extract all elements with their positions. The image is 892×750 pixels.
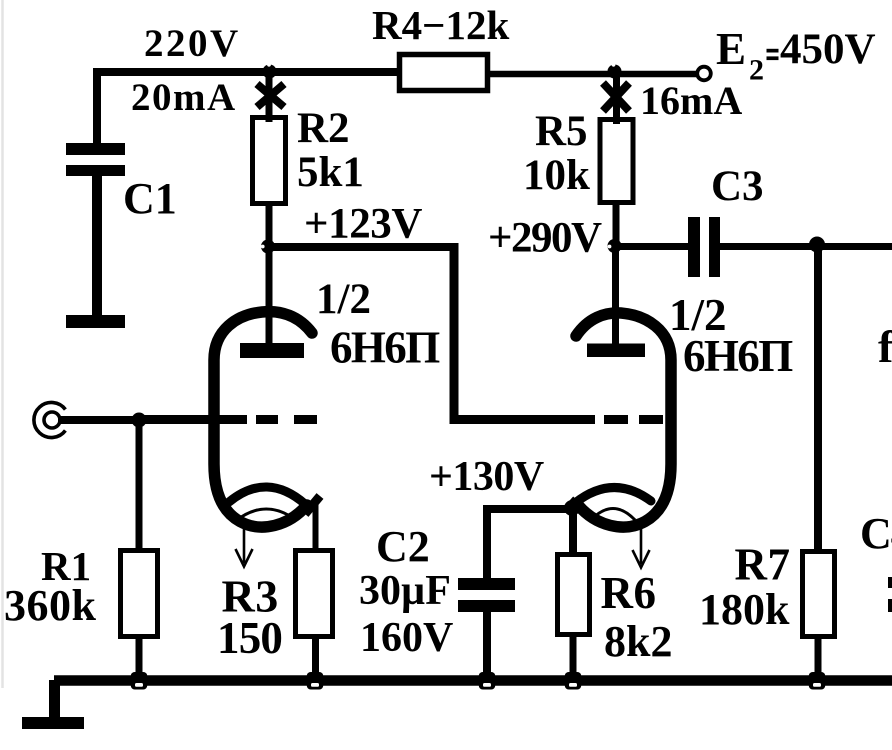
resistor R1 — [121, 551, 158, 637]
wire C2 top lead — [483, 505, 491, 580]
wire R7 top lead — [814, 247, 822, 553]
capacitor C4 stubs — [888, 577, 892, 588]
svg-text:R5: R5 — [535, 108, 588, 155]
svg-text:30µF: 30µF — [359, 568, 451, 614]
svg-text:5k1: 5k1 — [297, 149, 364, 196]
svg-text:6Н6П: 6Н6П — [683, 331, 793, 381]
node junction at R5 top — [608, 65, 622, 79]
tube U2 cathode lead diagonal — [568, 500, 577, 510]
X mark at R2 — [257, 84, 284, 107]
resistor R2 — [253, 118, 286, 204]
capacitor C1 — [66, 143, 125, 155]
svg-text:R6: R6 — [601, 568, 657, 618]
svg-text:6Н6П: 6Н6П — [330, 323, 440, 373]
svg-text:+290V: +290V — [488, 215, 602, 262]
wire top-left vertical — [93, 77, 101, 148]
junction rail R6 — [565, 672, 582, 690]
terminal E2 — [697, 67, 711, 81]
wire C1 top lead — [93, 73, 101, 148]
svg-text:16mA: 16mA — [640, 78, 742, 123]
svg-text:2: 2 — [749, 54, 764, 87]
wire node to C3 — [614, 243, 688, 250]
X mark at R5 — [603, 83, 629, 111]
tube U1 envelope — [214, 312, 312, 527]
wire R5 top lead — [613, 72, 620, 124]
ground bar — [22, 717, 84, 729]
svg-text:180k: 180k — [699, 585, 790, 634]
svg-text:150: 150 — [217, 613, 282, 663]
svg-text:+130V: +130V — [429, 454, 544, 500]
tube U1 cathode lead diagonal — [305, 496, 320, 514]
svg-text:20mA: 20mA — [131, 76, 237, 119]
output node dot — [809, 237, 825, 253]
svg-text:360k: 360k — [4, 581, 97, 630]
resistor R6 — [558, 555, 590, 635]
grid U2 dashes — [604, 415, 663, 424]
wire R3 bottom lead — [312, 634, 319, 682]
ground rail corner — [49, 680, 60, 719]
svg-text:R7: R7 — [735, 540, 791, 590]
wire R1 bottom lead — [136, 634, 143, 682]
wire C3 to right edge — [720, 243, 892, 250]
svg-text:1/2: 1/2 — [316, 276, 371, 323]
C1 bottom bar — [66, 315, 125, 328]
tube U2 heater arc — [591, 509, 635, 521]
tube U1 heater arc — [237, 509, 296, 520]
svg-text:220V: 220V — [144, 22, 241, 65]
svg-text:160V: 160V — [360, 615, 453, 661]
svg-text:+123V: +123V — [304, 201, 422, 248]
wire R2 top lead — [266, 72, 273, 122]
junction cathode U2 node — [564, 500, 580, 516]
svg-text:C4: C4 — [860, 509, 892, 558]
wire R5 bottom lead — [613, 202, 620, 246]
tube U1 cathode — [229, 487, 305, 504]
capacitor C2 — [458, 578, 515, 590]
wire R7 bottom lead — [815, 634, 822, 682]
wire +130V horizontal — [487, 505, 572, 513]
input connector — [34, 403, 65, 438]
svg-text:R4−12k: R4−12k — [372, 2, 509, 48]
wire C1 bottom lead — [92, 176, 102, 318]
wire R1 top lead — [136, 420, 143, 552]
grid U1 dashes — [256, 415, 317, 424]
resistor R7 — [803, 552, 835, 637]
tube U1 plate bar — [240, 343, 304, 358]
junction rail C2 — [479, 672, 496, 690]
svg-text:E: E — [716, 24, 746, 74]
resistor R5 — [600, 120, 633, 203]
tube U2 envelope — [576, 313, 671, 527]
junction rail R7 — [809, 672, 826, 690]
svg-text:R2: R2 — [297, 105, 350, 152]
resistor R3 — [296, 551, 333, 637]
grid U1 lead — [139, 415, 247, 424]
svg-text:C1: C1 — [123, 174, 177, 223]
capacitor C3 — [688, 217, 700, 277]
node junction at R2 top — [263, 65, 277, 79]
tube U1 arrow — [236, 528, 253, 567]
svg-text:C2: C2 — [376, 522, 430, 571]
svg-text:450V: 450V — [780, 26, 876, 73]
wire top rail right — [490, 71, 697, 78]
anode U2 lead — [612, 246, 619, 344]
wire R6 top lead — [569, 505, 577, 556]
node +290V — [608, 239, 622, 253]
wire R3 top lead — [313, 500, 319, 552]
junction rail R1 — [131, 672, 148, 690]
ground rail — [54, 675, 892, 686]
tube U2 arrow — [633, 528, 650, 568]
tube U2 plate bar — [587, 344, 645, 358]
node +123V — [261, 240, 275, 254]
wire input to junction — [58, 416, 150, 424]
svg-text:10k: 10k — [523, 152, 590, 199]
svg-text:C3: C3 — [711, 163, 764, 210]
wire R6 bottom lead — [570, 632, 577, 682]
wire +123V to grid 2 — [268, 243, 458, 251]
tube U2 cathode — [575, 487, 651, 503]
junction input node — [132, 413, 147, 428]
wire R2 bottom lead — [266, 203, 273, 344]
wire top rail left — [94, 68, 398, 76]
svg-text:f: f — [878, 321, 892, 372]
scan artifact left border — [1, 0, 4, 688]
wire C2 bottom lead — [483, 612, 491, 682]
equals sign small — [767, 49, 779, 53]
junction rail R3 — [307, 672, 324, 690]
svg-text:8k2: 8k2 — [604, 617, 672, 666]
resistor R4 — [400, 55, 488, 91]
